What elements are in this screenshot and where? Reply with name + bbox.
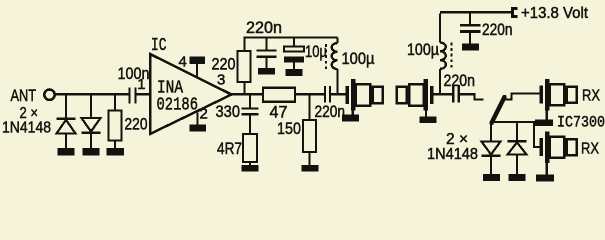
wire 4R7 to ground	[249, 162, 251, 165]
svg-text:100µ: 100µ	[407, 41, 439, 59]
capacitor 220n (receiver side coupling)	[453, 85, 458, 103]
wire: 47 to output cap	[295, 93, 324, 95]
svg-text:330: 330	[216, 103, 241, 121]
svg-text:4R7: 4R7	[217, 140, 242, 158]
wire: coupling cap to IC pin 1	[137, 93, 150, 95]
svg-text:47: 47	[270, 104, 288, 122]
capacitor 10u electrolytic	[284, 39, 304, 70]
capacitor 220n (rail decoupling)	[257, 39, 277, 68]
resistor 150 (load)	[303, 120, 316, 152]
svg-text:2: 2	[200, 105, 208, 122]
resistor 4R7 (snubber)	[243, 134, 257, 162]
coax plug RX upper	[540, 79, 577, 110]
svg-text:ANT: ANT	[11, 87, 37, 105]
ground (4R7)	[242, 165, 259, 172]
ground (J2 shell)	[425, 111, 427, 117]
switch lever (antenna changeover)	[492, 97, 505, 123]
ground (D2)	[83, 148, 100, 155]
ground (RX lower shell)	[546, 163, 548, 175]
svg-text:220n: 220n	[444, 72, 476, 90]
choke 100u (output bias)	[326, 38, 338, 94]
ground (D4)	[509, 174, 526, 181]
wire: cap to switch (with jog)	[460, 94, 484, 99]
svg-text:220: 220	[125, 115, 148, 133]
capacitor 100n (input coupling)	[130, 88, 136, 104]
capacitor 220n (supply decoupling)	[460, 13, 481, 43]
wire: ANT to coupling cap	[54, 93, 128, 95]
svg-text:IC: IC	[151, 36, 167, 56]
ground (RX upper shell)	[546, 110, 548, 119]
ground (10u)	[286, 69, 303, 76]
ground (pin 4)	[190, 57, 206, 65]
svg-text:1N4148: 1N4148	[427, 146, 478, 163]
wire 150 to ground	[308, 152, 310, 165]
svg-text:220n: 220n	[482, 21, 513, 39]
op-amp IC INA02186 (MMIC triangle)	[150, 54, 232, 134]
wire: output node up to 220 resistor	[243, 82, 245, 94]
svg-text:1: 1	[137, 76, 145, 93]
ground (R 220 input)	[107, 148, 125, 155]
snubber: wire down from output node	[249, 94, 251, 107]
choke 100u nr 2 (bias feed)	[440, 13, 452, 94]
pin 2 stub	[196, 113, 198, 125]
svg-text:4: 4	[179, 53, 187, 70]
svg-text:150: 150	[277, 120, 301, 138]
resistor 47 (series output)	[263, 88, 295, 102]
capacitor 330 (snubber)	[242, 109, 259, 135]
ground (D1)	[58, 148, 75, 155]
wire: IC output to 47 resistor	[232, 93, 264, 95]
wire: 220 resistor top to rail	[245, 38, 338, 52]
resistor 220 (output bias feed)	[238, 51, 251, 82]
svg-text:02186: 02186	[157, 95, 199, 115]
ground (150)	[302, 165, 319, 172]
wire: lever tip to upper RX	[505, 94, 540, 100]
wire: lower bus to diodes and lower RX	[492, 122, 540, 147]
ground (supply 220n)	[462, 44, 479, 51]
wire: J2 to 220n cap	[434, 93, 453, 95]
ground (J1 shell)	[352, 111, 354, 115]
resistor 220 (input termination)	[109, 94, 122, 148]
ground (rail 220n)	[258, 68, 275, 75]
wire: down to 150 resistor	[308, 94, 310, 120]
supply terminal (+13.8V)	[513, 9, 518, 17]
svg-text:RX: RX	[581, 141, 599, 158]
diode D2 (down-pointing)	[82, 94, 101, 148]
ground (pin 2)	[190, 125, 207, 132]
antenna terminal ANT	[44, 90, 54, 100]
diode D4 (up-pointing, RX protect)	[508, 123, 527, 175]
coax plug J1 (amp output)	[346, 79, 383, 110]
svg-text:10µ: 10µ	[305, 43, 327, 61]
wire: cap to coax plug 1	[331, 93, 346, 95]
diode D3 (down-pointing, RX protect)	[482, 123, 501, 175]
svg-text:IC7300: IC7300	[557, 114, 605, 132]
capacitor 220n (output coupling)	[325, 86, 330, 103]
pin 4 stub	[196, 64, 198, 78]
svg-text:RX: RX	[582, 87, 600, 104]
svg-text:3: 3	[217, 71, 225, 88]
svg-text:100µ: 100µ	[342, 50, 375, 68]
ground (D3)	[483, 174, 500, 181]
diode D1 (up-pointing, anti-parallel pair)	[57, 94, 76, 148]
svg-text:+13.8 Volt: +13.8 Volt	[521, 5, 589, 22]
rail: choke 2 to supply terminal	[440, 11, 511, 13]
coax jack J2 (to bias tee, mirrored)	[397, 79, 434, 110]
svg-text:220: 220	[212, 56, 236, 74]
svg-text:220n: 220n	[246, 19, 282, 37]
coax plug RX lower	[540, 132, 577, 163]
svg-text:220n: 220n	[315, 103, 346, 121]
svg-text:1N4148: 1N4148	[2, 120, 51, 137]
